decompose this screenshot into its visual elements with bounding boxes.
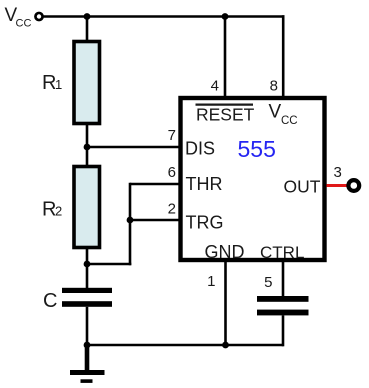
wire: Vcc top rail (42, 15, 285, 18)
wire: pin 8 Vcc (282, 15, 285, 98)
wire: pin 6 THR (130, 183, 180, 186)
svg-text:7: 7 (168, 127, 176, 144)
svg-text:1: 1 (207, 273, 215, 290)
node: junction R2/C (84, 261, 91, 268)
svg-text:555: 555 (238, 136, 276, 162)
svg-text:2: 2 (168, 201, 176, 218)
svg-text:CC: CC (281, 115, 298, 127)
svg-text:5: 5 (264, 274, 272, 291)
wire: C bottom to ground rail (86, 307, 89, 345)
node: junction ground rail (84, 342, 91, 349)
capacitor C (62, 288, 112, 293)
svg-text:THR: THR (186, 174, 223, 194)
wire: pin 3 OUT (red) (327, 184, 348, 187)
resistor R2 (74, 167, 100, 248)
wire: pin 5 CTRL (282, 260, 285, 297)
overline RESET (196, 103, 254, 105)
terminal OUT (348, 180, 359, 191)
wire: pin 2 TRG (130, 219, 180, 222)
svg-text:DIS: DIS (185, 139, 215, 159)
svg-text:OUT: OUT (284, 177, 321, 197)
wire: THR/TRG vertical link (129, 183, 132, 266)
wire: pin 7 DIS to junction (87, 146, 180, 149)
svg-text:1: 1 (55, 77, 62, 92)
svg-text:TRG: TRG (186, 213, 224, 233)
svg-text:C: C (43, 290, 57, 312)
wire: bottom ground rail (87, 344, 284, 347)
terminal Vcc (35, 13, 42, 20)
svg-text:2: 2 (55, 204, 62, 219)
resistor R1 (74, 42, 100, 124)
svg-text:RESET: RESET (196, 105, 255, 125)
node: junction pin 1 (222, 342, 229, 349)
wire: CTRL cap to ground rail (282, 315, 285, 346)
wire: R1 bottom to R2 top (86, 123, 89, 167)
wire: junction to THR/TRG link (87, 263, 131, 266)
svg-text:6: 6 (168, 164, 176, 181)
wire: pin 4 RESET (224, 17, 227, 99)
op-amp U1 555 timer box (181, 98, 325, 260)
svg-text:8: 8 (270, 78, 278, 95)
node: junction above R1 (84, 13, 91, 20)
svg-text:V: V (269, 102, 282, 123)
svg-text:4: 4 (211, 78, 219, 95)
node: junction DIS (84, 144, 91, 151)
svg-text:CTRL: CTRL (260, 243, 304, 262)
svg-text:CC: CC (16, 18, 32, 30)
node: junction TRG (127, 217, 134, 224)
wire: pin 1 GND (224, 260, 227, 345)
capacitor CTRL bypass (257, 296, 309, 302)
svg-text:GND: GND (205, 242, 245, 262)
node: junction pin 4 rail (222, 13, 229, 20)
ground (85, 345, 90, 371)
svg-text:3: 3 (334, 164, 342, 181)
wire: R2 bottom to C (86, 247, 89, 289)
wire: rail to R1 top (86, 17, 89, 43)
